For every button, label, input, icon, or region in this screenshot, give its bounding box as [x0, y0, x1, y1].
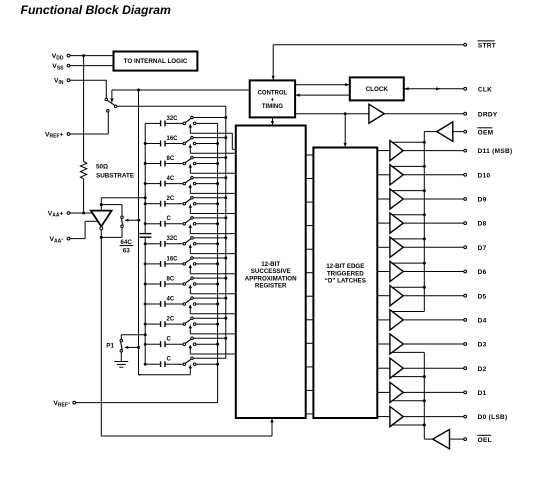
junction on enable bus [423, 375, 426, 378]
wire SAR control to S7 [190, 247, 236, 254]
svg-text:12-BIT: 12-BIT [261, 261, 280, 268]
terminal OEM [464, 128, 494, 137]
buffer D10 [377, 165, 403, 185]
junction on top-plate bus [144, 202, 147, 205]
svg-text:16C: 16C [167, 256, 179, 262]
junction on top-plate bus [144, 303, 147, 306]
register: 12-bit successive approximation register [236, 126, 306, 419]
wire throw2 S8 to VREF- bus [196, 263, 218, 265]
wire CLK bidirectional [404, 87, 464, 90]
wire SAR control to S10 [190, 307, 236, 314]
svg-text:D6: D6 [478, 269, 487, 276]
terminal D1 [403, 390, 486, 397]
capacitor 8C (row 9) [145, 281, 183, 287]
junction on top-plate bus [144, 283, 147, 286]
junction on VREF- bus [216, 142, 219, 145]
wire throw1 S8 to VIN bus [193, 257, 226, 259]
wire throw2 S9 to VREF- bus [196, 283, 218, 285]
svg-text:SUBSTRATE: SUBSTRATE [96, 173, 134, 180]
wire throw1 S1 to VIN bus [193, 117, 226, 119]
buffer D3 [377, 334, 403, 354]
terminal VAA- [49, 236, 69, 244]
control arrow into S7 [189, 244, 192, 248]
wire comparator input node [100, 196, 147, 210]
buffer D0 [377, 407, 403, 427]
svg-text:32C: 32C [167, 236, 179, 242]
wire throw2 S6 to VREF- bus [196, 223, 218, 225]
junction on top-plate bus [144, 262, 147, 265]
control arrow into S-autozero [124, 219, 140, 222]
switch S12 for C [183, 337, 196, 345]
junction on enable bus [423, 189, 426, 192]
ground [114, 362, 128, 368]
junction on enable bus [423, 141, 426, 144]
wire sample-control bus to S13 [139, 367, 191, 374]
wire SAR control to S12 [190, 347, 236, 354]
svg-text:4C: 4C [167, 296, 175, 302]
resistor 50 ohm SUBSTRATE [80, 162, 86, 179]
svg-text:C: C [167, 337, 172, 343]
junction on VREF- bus [216, 242, 219, 245]
buffer D6 [377, 261, 403, 281]
control arrow into S9 [189, 284, 192, 288]
svg-text:D5: D5 [478, 293, 487, 300]
svg-text:TRIGGERED: TRIGGERED [327, 270, 364, 277]
switch S3 for 8C [183, 156, 196, 164]
latch block: 12-bit edge triggered D latches [313, 148, 377, 419]
svg-text:TIMING: TIMING [262, 104, 283, 110]
wire throw1 S2 to VIN bus [193, 137, 226, 139]
switch S2 for 16C [183, 136, 196, 144]
buffer D8 [377, 213, 403, 233]
wire VIN to sample switch [70, 80, 106, 98]
junction on enable bus [423, 213, 426, 216]
capacitor C (row 6) [145, 221, 183, 227]
control arrow into S8 [189, 264, 192, 268]
control arrow into S2 [189, 144, 192, 148]
wire latch clock from DRDY node [344, 114, 347, 148]
switch S4 for 4C [183, 176, 196, 184]
capacitor 16C (row 2) [145, 141, 183, 147]
svg-text:D1: D1 [478, 390, 487, 397]
buffer D7 [377, 237, 403, 257]
wire VAA+ to comparator [70, 212, 92, 214]
wire throw1 S7 to VIN bus [193, 237, 226, 239]
junction on top-plate bus [144, 343, 147, 346]
svg-text:D7: D7 [478, 245, 487, 252]
terminal DRDY [384, 111, 498, 118]
capacitor 4C (row 4) [145, 181, 183, 187]
box: CLOCK [350, 77, 404, 100]
junction on VIN bus [224, 297, 227, 300]
terminal D6 [403, 269, 486, 276]
wire throw2 S12 to VREF- bus [196, 343, 218, 345]
junction on VREF- bus [216, 162, 219, 165]
buffer D2 [377, 358, 403, 378]
terminal OEL [464, 435, 492, 444]
svg-text:OEM: OEM [478, 129, 494, 136]
wire SAR bit 8 to latch [306, 225, 314, 227]
switch S9 for 8C [183, 277, 196, 285]
buffer D9 [377, 189, 403, 209]
junction on VIN bus [224, 277, 227, 280]
svg-text:TO INTERNAL LOGIC: TO INTERNAL LOGIC [124, 58, 188, 65]
wire VREF+ to sample switch lower throw [70, 112, 108, 134]
switch S10 for 4C [183, 297, 196, 305]
junction on enable bus [423, 262, 426, 265]
junction on VREF- bus [216, 283, 219, 286]
wire SAR bit 9 to latch [306, 201, 314, 203]
wire OEL enable bus (lower) [424, 352, 432, 439]
buffer OEM (input) [437, 122, 464, 141]
junction on VREF- bus [216, 202, 219, 205]
junction on top-plate bus [144, 222, 147, 225]
wire comparator node to autozero switch [101, 205, 122, 216]
wire comparator output [100, 230, 103, 239]
svg-text:+: + [271, 97, 275, 103]
wire STRT to control/timing [272, 45, 464, 80]
svg-text:CONTROL: CONTROL [258, 91, 288, 97]
wire SAR bit 2 to latch [306, 366, 314, 368]
svg-text:4C: 4C [167, 176, 175, 182]
switch S8 for 16C [183, 257, 196, 265]
wire throw2 S13 to VREF- bus [196, 363, 218, 365]
wire SAR bit 6 to latch [306, 272, 314, 274]
wire VIN bus (sample line) [117, 106, 226, 358]
control arrow into S10 [189, 304, 192, 308]
capacitor C (row 12) [145, 341, 183, 347]
capacitor 2C (row 5) [145, 201, 183, 207]
wire throw1 S10 to VIN bus [193, 297, 226, 299]
wire enable tap D11 [392, 141, 424, 143]
junction on enable bus [423, 165, 426, 168]
junction on enable bus [423, 286, 426, 289]
capacitor 2C (row 11) [145, 321, 183, 327]
control arrow into S6 [189, 224, 192, 228]
switch S7 for 32C [183, 237, 196, 245]
wire throw1 S13 to VIN bus [193, 357, 226, 359]
junction on VREF- bus [216, 363, 219, 366]
terminal CLK [464, 86, 492, 93]
wire sample-control bus [139, 90, 142, 375]
buffer D11 [377, 141, 403, 161]
control arrow into S12 [189, 345, 192, 349]
junction on VIN bus [224, 176, 227, 179]
box: CONTROL + TIMING [250, 80, 295, 117]
junction on VREF- bus [216, 182, 219, 185]
svg-text:D11 (MSB): D11 (MSB) [478, 148, 513, 155]
control arrow into S5 [189, 204, 192, 208]
svg-text:D2: D2 [478, 366, 487, 373]
junction on VREF- bus [216, 303, 219, 306]
terminal VAA+ [48, 210, 70, 218]
svg-text:64C: 64C [120, 239, 132, 246]
terminal STRT [464, 41, 496, 50]
terminal D8 [403, 221, 486, 228]
capacitor 8C (row 3) [145, 161, 183, 167]
wire enable tap D6 [392, 262, 424, 264]
wire SAR bit 7 to latch [306, 248, 314, 250]
junction on VIN bus [224, 116, 227, 119]
terminal D2 [403, 366, 486, 373]
wire top-plate bus upper [144, 123, 146, 233]
svg-text:D8: D8 [478, 221, 487, 228]
wire throw2 S5 to VREF- bus [196, 203, 218, 205]
wire control/timing to S-sample [112, 89, 250, 92]
terminal VREF+ [45, 131, 70, 139]
svg-text:D9: D9 [478, 197, 487, 204]
wire throw2 S1 to VREF- bus [196, 122, 218, 124]
wire throw1 S4 to VIN bus [193, 177, 226, 179]
svg-text:16C: 16C [167, 136, 179, 142]
terminal D9 [403, 197, 486, 204]
terminal VIN [54, 78, 70, 86]
wire DRDY from control/timing [295, 112, 369, 115]
junction on VIN bus [224, 257, 227, 260]
svg-text:Functional Block Diagram: Functional Block Diagram [21, 3, 172, 17]
wire SAR control to S8 [190, 267, 236, 274]
wire throw2 S2 to VREF- bus [196, 143, 218, 145]
junction on top-plate bus [144, 363, 147, 366]
control arrow into P1 [124, 346, 138, 349]
svg-text:C: C [167, 216, 172, 222]
wire throw1 S11 to VIN bus [193, 317, 226, 319]
wire VREF- bus [76, 123, 218, 402]
svg-text:CLK: CLK [478, 86, 492, 93]
junction on enable bus [423, 424, 426, 427]
control arrow into S11 [189, 325, 192, 329]
control arrow into S4 [189, 184, 192, 188]
junction on top-plate bus [144, 242, 147, 245]
wire throw1 S3 to VIN bus [193, 157, 226, 159]
wire control/timing to clock [295, 83, 350, 86]
switch S-autozero [121, 216, 124, 228]
svg-text:32C: 32C [167, 116, 179, 122]
svg-text:APPROXIMATION: APPROXIMATION [245, 275, 297, 282]
wire OEM enable bus (upper) [424, 132, 437, 312]
svg-text:D4: D4 [478, 318, 487, 325]
wire SAR bit 1 to latch [306, 389, 314, 391]
wire P1 bottom to ground [120, 352, 122, 362]
wire resistor to VAA+ node [82, 179, 85, 215]
wire SAR control to S3 [190, 167, 236, 174]
terminal VSS [52, 63, 70, 71]
svg-text:D0 (LSB): D0 (LSB) [478, 414, 508, 421]
wire control/timing down to SAR [271, 117, 274, 125]
capacitor 4C (row 10) [145, 301, 183, 307]
capacitor 16C (row 8) [145, 261, 183, 267]
wire enable tap D5 [392, 286, 424, 288]
wire throw2 S4 to VREF- bus [196, 183, 218, 185]
wire VAA- to comparator [70, 221, 98, 238]
wire throw1 S5 to VIN bus [193, 197, 226, 199]
wire VSS to internal-logic box [70, 65, 114, 67]
wire top-plate bus lower [144, 238, 146, 364]
wire enable tap D8 [392, 214, 424, 216]
wire clock to control/timing [295, 94, 350, 97]
svg-text:8C: 8C [167, 156, 175, 162]
wire throw2 S11 to VREF- bus [196, 323, 218, 325]
svg-text:8C: 8C [167, 276, 175, 282]
wire comparator output to SAR [101, 237, 273, 436]
control arrow into S1 [189, 124, 192, 128]
buffer D1 [377, 382, 403, 402]
wire SAR control to S9 [190, 287, 236, 294]
terminal D7 [403, 245, 486, 252]
svg-text:OEL: OEL [478, 437, 492, 444]
terminal VDD [52, 53, 70, 61]
terminal D4 [403, 318, 486, 325]
wire enable tap D4 [392, 311, 424, 313]
svg-text:DRDY: DRDY [478, 111, 498, 118]
junction on top-plate bus [144, 142, 147, 145]
junction on VIN bus [224, 156, 227, 159]
wire SAR control to S5 [190, 207, 236, 214]
capacitor 32C (row 1) [145, 121, 183, 127]
svg-text:“D” LATCHES: “D” LATCHES [325, 278, 366, 285]
control arrow into S13 [189, 365, 192, 369]
junction on VIN bus [224, 136, 227, 139]
wire autozero to comparator output [101, 228, 122, 238]
control arrow into S3 [189, 164, 192, 168]
switch S6 for C [183, 217, 196, 225]
wire SAR bit 3 to latch [306, 342, 314, 344]
junction on VIN bus [224, 236, 227, 239]
svg-text:12-BIT EDGE: 12-BIT EDGE [326, 263, 364, 270]
svg-text:D3: D3 [478, 342, 487, 349]
svg-text:CLOCK: CLOCK [366, 86, 389, 93]
box: TO INTERNAL LOGIC [114, 52, 198, 71]
junction on enable bus [423, 237, 426, 240]
wire SAR control to S1 [190, 127, 236, 150]
junction on VIN bus [224, 216, 227, 219]
wire P1 top to top-plate bus [121, 333, 146, 339]
switch S11 for 2C [183, 317, 196, 325]
svg-text:STRT: STRT [478, 42, 496, 49]
wire throw1 S9 to VIN bus [193, 277, 226, 279]
comparator U1 [91, 211, 112, 230]
svg-text:D10: D10 [478, 172, 491, 179]
switch S-sample (VIN/VREF+) [105, 98, 117, 112]
wire throw2 S7 to VREF- bus [196, 243, 218, 245]
wire SAR bit 5 to latch [306, 295, 314, 297]
wire throw2 S10 to VREF- bus [196, 303, 218, 305]
wire throw1 S12 to VIN bus [193, 337, 226, 339]
wire VDD rail down [83, 56, 85, 162]
svg-text:2C: 2C [167, 317, 175, 323]
terminal D0 (LSB) [403, 414, 507, 421]
svg-text:SUCCESSIVE: SUCCESSIVE [251, 268, 291, 275]
terminal D10 [403, 172, 490, 179]
junction on top-plate bus [144, 162, 147, 165]
junction on VREF- bus [216, 262, 219, 265]
switch S5 for 2C [183, 197, 196, 205]
buffer DRDY [369, 104, 384, 123]
capacitor C (row 13) [145, 361, 183, 367]
wire enable tap D2 [392, 376, 424, 378]
control arrow into S-sample [110, 90, 113, 103]
wire SAR bit 4 to latch [306, 319, 314, 321]
svg-text:P1: P1 [106, 343, 114, 350]
terminal D3 [403, 342, 486, 349]
buffer OEL (input) [433, 429, 464, 448]
junction on top-plate bus [144, 323, 147, 326]
wire throw1 S6 to VIN bus [193, 217, 226, 219]
svg-text:50Ω: 50Ω [96, 163, 108, 170]
junction on VREF- bus [216, 343, 219, 346]
capacitor 32C (row 7) [145, 241, 183, 247]
terminal VREF- [53, 400, 75, 408]
svg-text:63: 63 [123, 248, 131, 255]
junction on top-plate bus [144, 182, 147, 185]
svg-text:REGISTER: REGISTER [255, 283, 287, 290]
wire enable tap D9 [392, 190, 424, 192]
wire throw2 S3 to VREF- bus [196, 163, 218, 165]
buffer D4 [377, 310, 403, 330]
wire VDD to internal-logic box [70, 54, 114, 57]
terminal D11 (MSB) [403, 148, 512, 155]
wire SAR control to S11 [190, 327, 236, 334]
junction on VREF- bus [216, 323, 219, 326]
junction on VREF- bus [216, 222, 219, 225]
wire SAR control to S6 [190, 227, 236, 234]
wire enable tap D3 [392, 351, 424, 353]
junction on VIN bus [224, 337, 227, 340]
wire enable tap D7 [392, 238, 424, 240]
wire enable tap D1 [392, 400, 424, 402]
buffer D5 [377, 286, 403, 306]
wire enable tap D10 [392, 165, 424, 167]
svg-text:2C: 2C [167, 196, 175, 202]
switch S1 for 32C [183, 116, 196, 124]
wire SAR bit 0 to latch [306, 413, 314, 415]
wire SAR bit 10 to latch [306, 178, 314, 180]
wire SAR control to S4 [190, 187, 236, 194]
junction on enable bus [423, 399, 426, 402]
wire enable tap D0 [392, 424, 424, 426]
wire SAR control to S2 [190, 147, 236, 154]
capacitor 64C/63 [139, 234, 151, 238]
switch P1 [120, 339, 123, 352]
switch S13 for C [183, 357, 196, 365]
terminal D5 [403, 293, 486, 300]
junction on VIN bus [224, 317, 227, 320]
wire SAR bit 11 to latch [306, 154, 314, 156]
junction control bus / P1 [137, 346, 140, 349]
svg-text:C: C [167, 357, 172, 363]
label 64C/63 [120, 239, 134, 255]
junction on VIN bus [224, 196, 227, 199]
